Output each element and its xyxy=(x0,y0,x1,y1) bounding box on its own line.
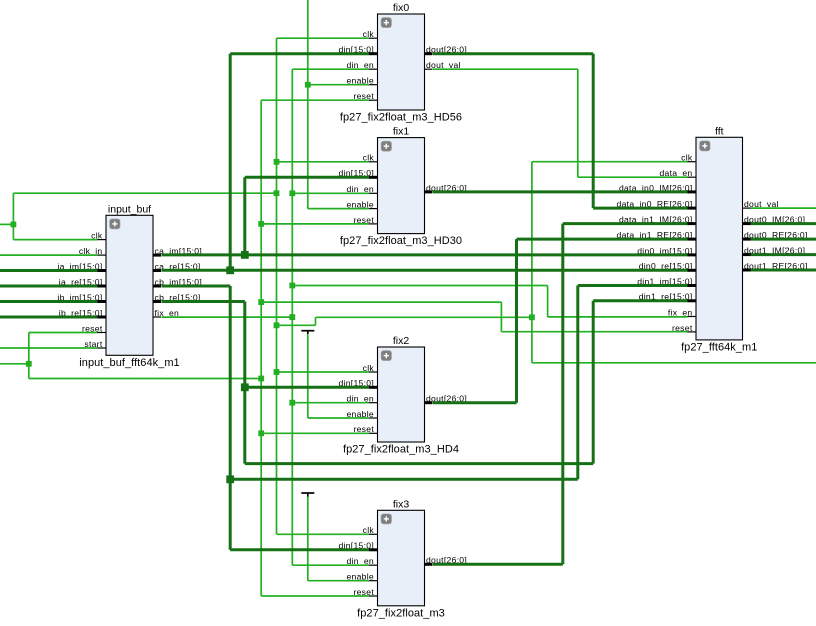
bus ib_im[15:0] primary input xyxy=(0,300,98,303)
bus cb_im to fft.din1_im xyxy=(578,284,688,287)
vcc tie T1 for fix2.enable xyxy=(301,330,314,332)
wire fix_en trunk vertical x=292.3 xyxy=(291,69,293,565)
junction bus ca_im xyxy=(241,251,249,259)
wire reset feed to trunk at y=378.5 xyxy=(29,378,261,380)
bus cb_im branch at y=479.3 xyxy=(230,478,578,481)
bus cb_im to fix3.din xyxy=(230,548,369,551)
bus fix0.dout[26:0] xyxy=(433,52,593,55)
junction clk at x=531.9 xyxy=(529,314,535,320)
bus cb_re to fft.din1_re xyxy=(593,299,687,302)
junction clk at (13,224) xyxy=(11,222,17,228)
wire reset vertical x=501.4 xyxy=(500,302,502,332)
bus fix2.dout[26:0] xyxy=(433,401,517,404)
wire clk to fft.clk xyxy=(532,161,688,163)
svg-text:input_buf: input_buf xyxy=(108,203,151,215)
block fft (fp27_fft64k_m1) xyxy=(617,125,808,353)
bus fft.dout0_IM to right edge xyxy=(751,222,816,225)
junction reset input xyxy=(26,361,32,367)
wire to fix2.enable xyxy=(308,417,369,419)
bus fix0.dout vertical x=593.2 xyxy=(592,54,595,208)
bus cb_im vertical x=577.8 xyxy=(576,286,579,480)
bus cb_im vertical x=230.2 xyxy=(229,286,232,550)
svg-text:fix1: fix1 xyxy=(393,126,410,138)
bus ia_im[15:0] primary input xyxy=(0,269,98,272)
wire clk branch to right edge xyxy=(532,362,816,364)
wire fft.dout_val to right edge xyxy=(751,207,816,209)
wire fix_en to fix1.din_en xyxy=(292,192,369,194)
block fix0 (fp27_fix2float_m3_HD56) xyxy=(339,2,468,124)
wire clk jog vertical x=315.5 xyxy=(315,317,317,325)
bus ca_re to fix0.din xyxy=(230,52,369,55)
junction enable at fix0.enable xyxy=(305,82,311,88)
junction reset branch to fft xyxy=(258,299,264,305)
junction bus ca_re xyxy=(226,266,234,274)
bus fix3.dout vertical x=562.8 xyxy=(561,224,564,565)
junction bus cb_re xyxy=(241,383,249,391)
block fix2 (fp27_fix2float_m3_HD4) xyxy=(339,335,468,456)
junction clk trunk feed xyxy=(274,190,280,196)
wire dout_val to fft.data_en xyxy=(578,176,688,178)
junction fix_en branch at y=285.5 xyxy=(289,283,295,289)
bus ca_re[15:0] to fft.din0_re xyxy=(162,269,688,272)
wire reset to input_buf.reset xyxy=(29,332,98,334)
junction reset at fix2.reset xyxy=(258,430,264,436)
wire reset to fix0.reset xyxy=(261,99,369,101)
wire tie T2 to fix3.enable vertical xyxy=(307,497,309,581)
wire fix_en to fix3.din_en xyxy=(292,564,369,566)
svg-text:fp27_fix2float_m3_HD4: fp27_fix2float_m3_HD4 xyxy=(343,444,459,456)
wire clk vertical at x=13 xyxy=(12,193,14,239)
bus fft.dout1_RE to right edge xyxy=(751,269,816,272)
wire fix_en branch toward fft at y=285.5 xyxy=(292,285,547,287)
wire enable to fix1.enable xyxy=(308,208,369,210)
wire start primary input xyxy=(0,347,98,349)
wire fix_en to fix0.din_en xyxy=(292,68,369,70)
wire reset to fix3.reset xyxy=(261,595,369,597)
wire clk to fix1.clk xyxy=(277,161,370,163)
wire clk branch toward fft, lower jog xyxy=(277,324,316,326)
wire fix0.dout_val xyxy=(433,68,578,70)
wire reset trunk vertical x=261.2 xyxy=(260,100,262,596)
svg-text:fp27_fix2float_m3_HD30: fp27_fix2float_m3_HD30 xyxy=(340,235,462,247)
svg-text:fp27_fft64k_m1: fp27_fft64k_m1 xyxy=(681,341,757,353)
bus ia_re[15:0] primary input xyxy=(0,285,98,288)
wire reset vertical at x=28.8 xyxy=(28,333,30,379)
vcc tie T2 for fix3.enable xyxy=(301,492,314,494)
wire enable to fix0.enable xyxy=(308,84,369,86)
svg-text:fp27_fix2float_m3: fp27_fix2float_m3 xyxy=(357,607,445,619)
bus fix1.dout to fft.data_in0_IM xyxy=(433,190,688,193)
svg-text:input_buf_fft64k_m1: input_buf_fft64k_m1 xyxy=(79,357,179,369)
bus fix0.dout to fft.data_in0_RE xyxy=(593,207,687,210)
bus ca_re vertical to fix0.din xyxy=(229,54,232,271)
bus fix2.dout to fft.data_in1_RE xyxy=(517,238,688,241)
wire enable vertical from top edge x=307.8 xyxy=(307,0,309,209)
bus fft.dout1_IM to right edge xyxy=(751,253,816,256)
wire clk to fix2.clk xyxy=(277,371,370,373)
bus cb_im[15:0] from input_buf xyxy=(162,285,231,288)
junction fix_en from input_buf xyxy=(289,314,295,320)
wire fix_en vertical x=547.6 xyxy=(547,286,549,317)
block fix3 (fp27_fix2float_m3) xyxy=(339,498,468,619)
wire reset to fix1.reset xyxy=(261,223,369,225)
junction bus cb_im xyxy=(226,475,234,483)
bus cb_re vertical x=593.2 xyxy=(592,301,595,464)
bus fix3.dout[26:0] xyxy=(433,563,563,566)
junction reset at fix1.reset xyxy=(258,221,264,227)
wire reset to fft.reset xyxy=(501,331,687,333)
wire clk_in primary input xyxy=(0,254,98,256)
junction clk at fix2.clk xyxy=(274,369,280,375)
bus fix2.dout vertical x=516.5 xyxy=(515,239,518,403)
svg-text:fft: fft xyxy=(715,125,724,137)
wire clk primary input from left edge xyxy=(0,223,13,225)
wire clk feed to trunk at y=193 xyxy=(13,192,276,194)
junction clk branch to fft xyxy=(274,322,280,328)
svg-text:fix2: fix2 xyxy=(393,335,410,347)
block fix1 (fp27_fix2float_m3_HD30) xyxy=(339,126,468,248)
wire reset to fix2.reset xyxy=(261,432,369,434)
wire dout_val vertical x=577.8 xyxy=(577,69,579,177)
wire to fix3.enable xyxy=(308,580,369,582)
junction reset trunk feed xyxy=(258,376,264,382)
bus cb_re[15:0] from input_buf xyxy=(162,300,245,303)
bus ib_re[15:0] primary input xyxy=(0,316,98,319)
wire clk to fix3.clk xyxy=(277,533,370,535)
wire fix_en to fix2.din_en xyxy=(292,402,369,404)
wire reset branch toward fft at y=302.1 xyxy=(261,301,501,303)
junction fix_en at fix2.din_en xyxy=(289,400,295,406)
junction fix_en at fix1.din_en xyxy=(289,190,295,196)
junction clk at fix1.clk xyxy=(274,159,280,165)
bus cb_re to fix2.din xyxy=(245,386,369,389)
bus cb_re vertical x=244.8 xyxy=(243,302,246,464)
wire fix_en to fft.fix_en xyxy=(548,316,688,318)
block input_buf (input_buf_fft64k_m1) xyxy=(57,203,202,368)
bus ca_im[15:0] to fft.din0_im xyxy=(162,253,688,256)
wire fix_en from input_buf.fix_en xyxy=(162,316,293,318)
wire clk to fix0.clk xyxy=(277,37,370,39)
bus ca_im vertical to fix1.din xyxy=(243,177,246,255)
svg-text:fix3: fix3 xyxy=(393,498,410,510)
wire reset primary input from left edge xyxy=(0,363,29,365)
svg-text:fix0: fix0 xyxy=(393,2,410,14)
svg-text:fp27_fix2float_m3_HD56: fp27_fix2float_m3_HD56 xyxy=(340,112,462,124)
wire clk trunk vertical x=276.5 xyxy=(276,38,278,534)
wire clk run to x=531.9 xyxy=(316,316,532,318)
bus fix3.dout to fft.data_in1_IM xyxy=(563,222,688,225)
wire tie T1 to fix2.enable vertical xyxy=(307,334,309,418)
wire clk to input_buf.clk xyxy=(13,239,97,241)
wire clk vertical x=531.9 xyxy=(531,162,533,363)
bus fft.dout0_RE to right edge xyxy=(751,238,816,241)
svg-text:fix_en: fix_en xyxy=(668,307,693,317)
bus ca_im to fix1.din xyxy=(245,176,369,179)
bus cb_re branch at y=463.6 xyxy=(245,462,593,465)
